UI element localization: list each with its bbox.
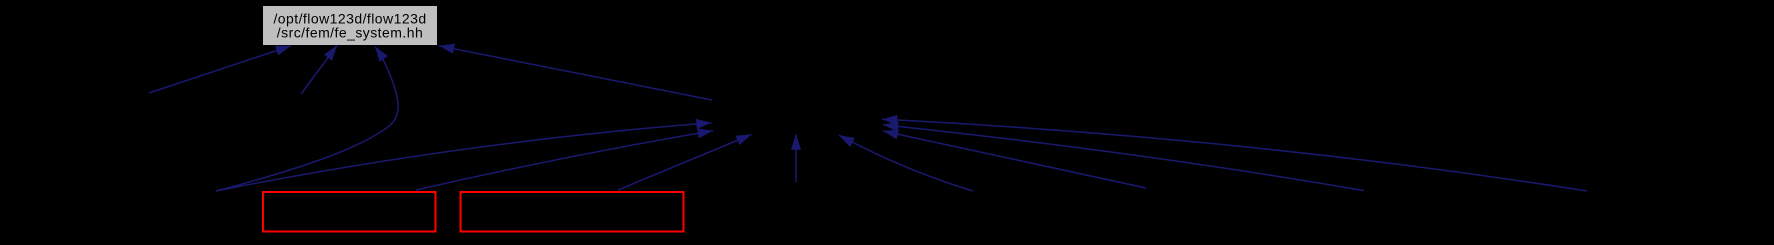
wire: edge B7 from bottom node to middle node right edge (883, 125, 1364, 191)
wire: edge B6 from bottom node to middle node right edge (883, 131, 1146, 188)
wire: edge A4 from middle node top-left to fe_system.hh (439, 46, 712, 100)
wire: curved edge A3 from bottom-left node to fe_system.hh (216, 47, 398, 192)
svg-text:/src/fem/fe_system.hh: /src/fem/fe_system.hh (277, 25, 423, 41)
wire: edge A1 from far-left node to fe_system.hh (149, 46, 291, 93)
wire: edge B3 from red box 2 to middle node bottom edge (618, 135, 752, 191)
wire: edge Q from red box 1 to middle node left edge (416, 131, 713, 190)
wire: edge A2 from lower node to fe_system.hh (301, 46, 337, 95)
node red box 2 (truncated dependency) (461, 192, 684, 232)
node fe_system.hh (current file, gray box) (263, 6, 437, 45)
wire: edge B4 vertical from bottom node to middle node bottom edge (795, 135, 797, 183)
wire: edge B8 from far-right bottom node to middle node right edge (882, 119, 1587, 191)
wire: edge B5 from bottom node to middle node bottom edge (839, 135, 973, 191)
node red box 1 (truncated dependency) (263, 192, 436, 232)
wire: edge P from bottom-left node to middle node left edge (216, 123, 712, 191)
